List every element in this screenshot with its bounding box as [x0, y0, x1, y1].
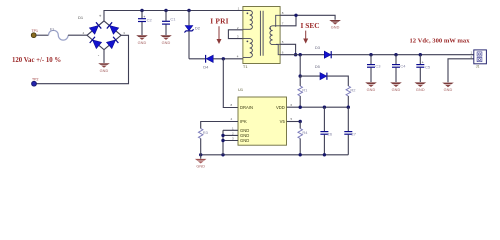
- node C1 tap: [164, 9, 167, 12]
- annotation I PRI: [210, 16, 228, 44]
- capacitor C4: [392, 55, 406, 82]
- resistor R1: [298, 76, 308, 107]
- node drain tee: [222, 57, 225, 60]
- svg-text:GND: GND: [162, 41, 171, 45]
- wire D4 to drain node: [213, 58, 243, 60]
- svg-text:C2: C2: [147, 17, 153, 22]
- wire feedback vertical: [299, 55, 301, 76]
- transformer T1: [237, 6, 284, 69]
- svg-text:VDD: VDD: [276, 105, 285, 110]
- node feedback drop: [299, 53, 302, 56]
- node pin8 pin7 join: [294, 14, 297, 17]
- svg-text:D2: D2: [195, 26, 201, 31]
- test point TP1: [31, 29, 38, 37]
- node pin5 join: [294, 53, 297, 56]
- wire secondary pin5 jog: [280, 44, 296, 54]
- svg-text:GND: GND: [367, 88, 376, 92]
- node C7 top: [347, 106, 350, 109]
- svg-text:C5: C5: [425, 65, 431, 70]
- svg-text:C7: C7: [351, 131, 357, 136]
- node gnd pin 3: [221, 139, 224, 142]
- svg-text:+: +: [99, 13, 102, 18]
- ground bottom left: [195, 159, 207, 169]
- svg-text:GND: GND: [100, 69, 109, 73]
- wire bridge plus to top rail: [104, 11, 243, 21]
- svg-text:R2: R2: [350, 88, 356, 93]
- wire TP1 to fuse: [36, 34, 49, 36]
- ground below C1: [160, 35, 172, 45]
- wire output rail: [280, 54, 474, 56]
- annotation I SEC: [301, 21, 320, 44]
- node R1 bottom: [299, 106, 302, 109]
- diode D3: [315, 45, 331, 58]
- svg-text:+: +: [143, 15, 145, 19]
- capacitor C1: [162, 11, 176, 36]
- ground below bridge: [98, 63, 110, 73]
- wire fuse to bridge: [68, 34, 87, 36]
- node C5 tap: [419, 53, 422, 56]
- wire J1 pin2 to gnd: [448, 59, 474, 82]
- svg-text:J1: J1: [476, 65, 480, 69]
- svg-text:TP2: TP2: [32, 78, 38, 82]
- svg-text:GND: GND: [138, 41, 147, 45]
- diode D4: [203, 55, 213, 70]
- ground secondary top right: [329, 20, 341, 30]
- wire secondary pin8 to gnd: [280, 15, 335, 19]
- wire D5 to R2: [327, 76, 348, 86]
- capacitor C6: [320, 107, 332, 155]
- svg-text:TP1: TP1: [32, 29, 38, 33]
- resistor R3: [199, 129, 209, 155]
- wire bottom rail: [201, 154, 349, 156]
- svg-text:I PRI: I PRI: [210, 16, 228, 25]
- svg-text:GND: GND: [416, 88, 425, 92]
- node gnd pin 2: [221, 134, 224, 137]
- capacitor C5: [416, 55, 431, 82]
- svg-text:DRAIN: DRAIN: [240, 105, 253, 110]
- node V5 R4: [299, 120, 302, 123]
- svg-text:D5: D5: [315, 64, 321, 69]
- svg-text:R4: R4: [302, 130, 308, 135]
- ground below C4: [390, 82, 402, 92]
- diode D5: [315, 64, 327, 80]
- ground below C5: [415, 82, 427, 92]
- svg-text:GND: GND: [444, 88, 453, 92]
- svg-text:U1: U1: [238, 87, 244, 92]
- connector J1: [471, 50, 487, 69]
- node R4 bottom: [299, 153, 302, 156]
- node C6 bottom: [323, 153, 326, 156]
- wire bridge right vertex to TP2 line: [36, 35, 128, 83]
- wire VDD rail: [287, 106, 349, 108]
- wire drain vertical: [223, 59, 238, 108]
- svg-text:120 Vac +/- 10 %: 120 Vac +/- 10 %: [12, 57, 61, 64]
- resistor R4: [298, 122, 308, 155]
- svg-text:C1: C1: [170, 16, 176, 21]
- svg-text:V5: V5: [280, 119, 286, 124]
- test point TP2: [32, 78, 39, 87]
- svg-text:T1: T1: [243, 64, 248, 69]
- node A feedback: [299, 74, 302, 77]
- svg-text:C6: C6: [327, 131, 333, 136]
- node R3 gnd: [199, 153, 202, 156]
- node C4 tap: [394, 53, 397, 56]
- svg-text:F1: F1: [50, 28, 54, 32]
- svg-text:R1: R1: [302, 88, 308, 93]
- capacitor C7: [344, 107, 356, 155]
- resistor R2: [346, 86, 356, 107]
- svg-text:D3: D3: [315, 45, 321, 50]
- node D2 tap: [187, 9, 190, 12]
- IC U1: [231, 87, 293, 145]
- svg-text:12 Vdc, 300 mW max: 12 Vdc, 300 mW max: [410, 37, 471, 44]
- wire node A to D5: [300, 75, 320, 77]
- wire zener leg to D4: [189, 58, 206, 60]
- wire gnd lead bottom left: [200, 155, 202, 159]
- svg-text:+: +: [422, 60, 424, 64]
- svg-text:D4: D4: [203, 65, 209, 70]
- node C3 tap: [369, 53, 372, 56]
- node C6 top: [323, 106, 326, 109]
- svg-text:GND: GND: [196, 165, 205, 169]
- fuse F1: [49, 28, 69, 41]
- node IC gnd rail: [221, 153, 224, 156]
- node C2 tap: [140, 9, 143, 12]
- svg-text:GND: GND: [392, 88, 401, 92]
- svg-text:D1: D1: [78, 15, 84, 20]
- wire IPK to R3: [201, 122, 238, 129]
- wire bridge minus lead: [103, 50, 105, 63]
- wire secondary pin7 jog: [280, 15, 296, 25]
- svg-text:IPK: IPK: [240, 119, 247, 124]
- capacitor C3: [367, 55, 381, 82]
- ground below C3: [365, 82, 377, 92]
- svg-text:C4: C4: [400, 63, 406, 68]
- bridge rectifier D1: [78, 13, 125, 57]
- svg-text:R3: R3: [203, 130, 209, 135]
- svg-text:GND: GND: [331, 26, 340, 30]
- wire IC gnd pins: [223, 130, 238, 155]
- svg-text:GND: GND: [240, 138, 249, 143]
- capacitor C2: [138, 11, 152, 36]
- wire V5 stub: [287, 121, 301, 123]
- svg-text:C3: C3: [375, 63, 381, 68]
- zener diode D2: [184, 11, 200, 59]
- ground below J1: [442, 83, 454, 93]
- wire primary pin2 pin3 jog: [228, 30, 243, 39]
- svg-text:I SEC: I SEC: [301, 21, 320, 30]
- ground below C2: [136, 35, 148, 45]
